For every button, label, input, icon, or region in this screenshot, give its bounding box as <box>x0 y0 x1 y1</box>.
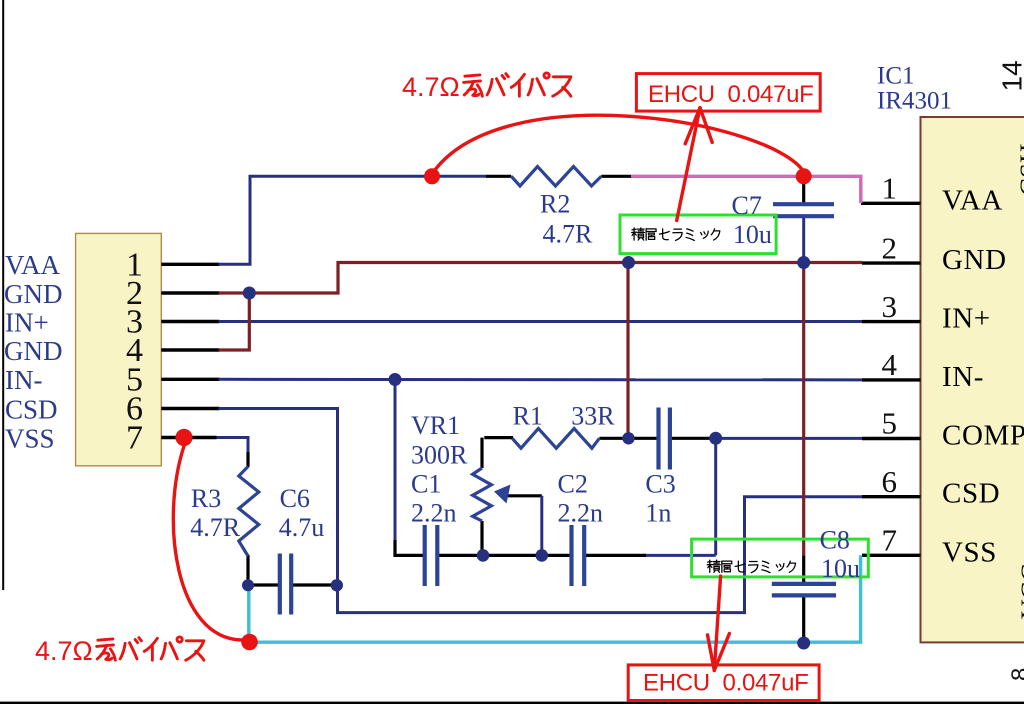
svg-text:IN-: IN- <box>5 365 42 395</box>
svg-text:C2: C2 <box>558 470 588 499</box>
svg-text:4.7R: 4.7R <box>190 513 241 542</box>
svg-text:10u: 10u <box>821 554 860 583</box>
svg-text:CSD: CSD <box>5 394 58 424</box>
svg-text:VAA: VAA <box>942 184 1003 216</box>
svg-text:C1: C1 <box>411 470 441 499</box>
svg-text:33R: 33R <box>571 402 615 431</box>
svg-text:VSS: VSS <box>942 536 997 568</box>
svg-text:IN+: IN+ <box>5 307 49 337</box>
svg-text:4: 4 <box>882 347 898 382</box>
svg-text:EHCU 0.047uF: EHCU 0.047uF <box>643 670 809 697</box>
svg-text:VCC: VCC <box>1016 563 1024 619</box>
svg-text:2.2n: 2.2n <box>558 499 604 528</box>
svg-text:14: 14 <box>997 60 1024 91</box>
svg-text:C7: C7 <box>732 191 762 220</box>
svg-text:R1: R1 <box>513 402 543 431</box>
svg-text:GND: GND <box>4 279 63 309</box>
svg-text:2: 2 <box>882 230 898 265</box>
svg-text:4.7R: 4.7R <box>543 220 594 249</box>
svg-text:GND: GND <box>942 244 1007 276</box>
svg-text:IN+: IN+ <box>942 303 991 335</box>
svg-text:8: 8 <box>1007 668 1024 681</box>
svg-text:5: 5 <box>882 406 898 441</box>
svg-text:IR4301: IR4301 <box>877 87 952 114</box>
svg-text:1: 1 <box>882 171 898 206</box>
svg-text:4.7Ω: 4.7Ω <box>35 636 93 666</box>
svg-text:VSS: VSS <box>5 423 55 453</box>
svg-text:COMP: COMP <box>942 420 1024 452</box>
svg-text:GND: GND <box>4 336 63 366</box>
svg-text:IN-: IN- <box>942 361 984 393</box>
svg-text:C3: C3 <box>645 470 675 499</box>
svg-text:CSD: CSD <box>942 478 1000 510</box>
svg-text:2.2n: 2.2n <box>411 499 457 528</box>
svg-text:C6: C6 <box>280 484 310 513</box>
svg-text:R3: R3 <box>191 484 221 513</box>
svg-text:VAA: VAA <box>5 250 61 280</box>
svg-text:C8: C8 <box>820 526 850 555</box>
svg-text:4.7Ω: 4.7Ω <box>402 72 460 102</box>
svg-text:7: 7 <box>882 523 898 558</box>
svg-text:VR1: VR1 <box>411 411 460 440</box>
svg-text:6: 6 <box>882 464 898 499</box>
svg-text:IC1: IC1 <box>877 63 915 90</box>
svg-text:4.7u: 4.7u <box>279 513 325 542</box>
svg-text:R2: R2 <box>540 190 570 219</box>
svg-text:3: 3 <box>882 289 898 324</box>
svg-text:1n: 1n <box>645 499 671 528</box>
svg-text:CSH: CSH <box>1015 143 1024 196</box>
svg-text:EHCU 0.047uF: EHCU 0.047uF <box>648 81 814 108</box>
svg-text:300R: 300R <box>411 441 468 470</box>
svg-text:10u: 10u <box>733 220 772 249</box>
svg-text:7: 7 <box>126 420 143 457</box>
